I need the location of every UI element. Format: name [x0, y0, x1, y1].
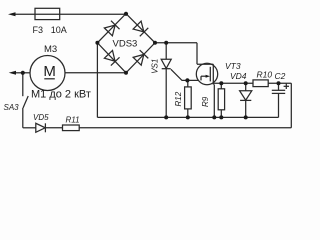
svg-text:М1 до 2 кВт: М1 до 2 кВт	[31, 89, 91, 101]
svg-text:R12: R12	[174, 91, 183, 106]
svg-text:C2: C2	[275, 71, 286, 81]
svg-text:F3: F3	[33, 25, 44, 35]
svg-text:VS1: VS1	[150, 59, 159, 74]
svg-text:VDS3: VDS3	[113, 39, 138, 50]
svg-text:R10: R10	[257, 70, 273, 80]
svg-text:VD4: VD4	[230, 71, 247, 81]
svg-text:M: M	[43, 63, 56, 80]
svg-text:М3: М3	[44, 44, 57, 55]
svg-text:R11: R11	[66, 116, 80, 125]
svg-text:R9: R9	[201, 96, 210, 107]
svg-text:10A: 10A	[51, 25, 67, 35]
svg-text:VT3: VT3	[225, 61, 241, 71]
svg-text:VD5: VD5	[33, 113, 49, 122]
svg-text:SA3: SA3	[4, 103, 20, 112]
